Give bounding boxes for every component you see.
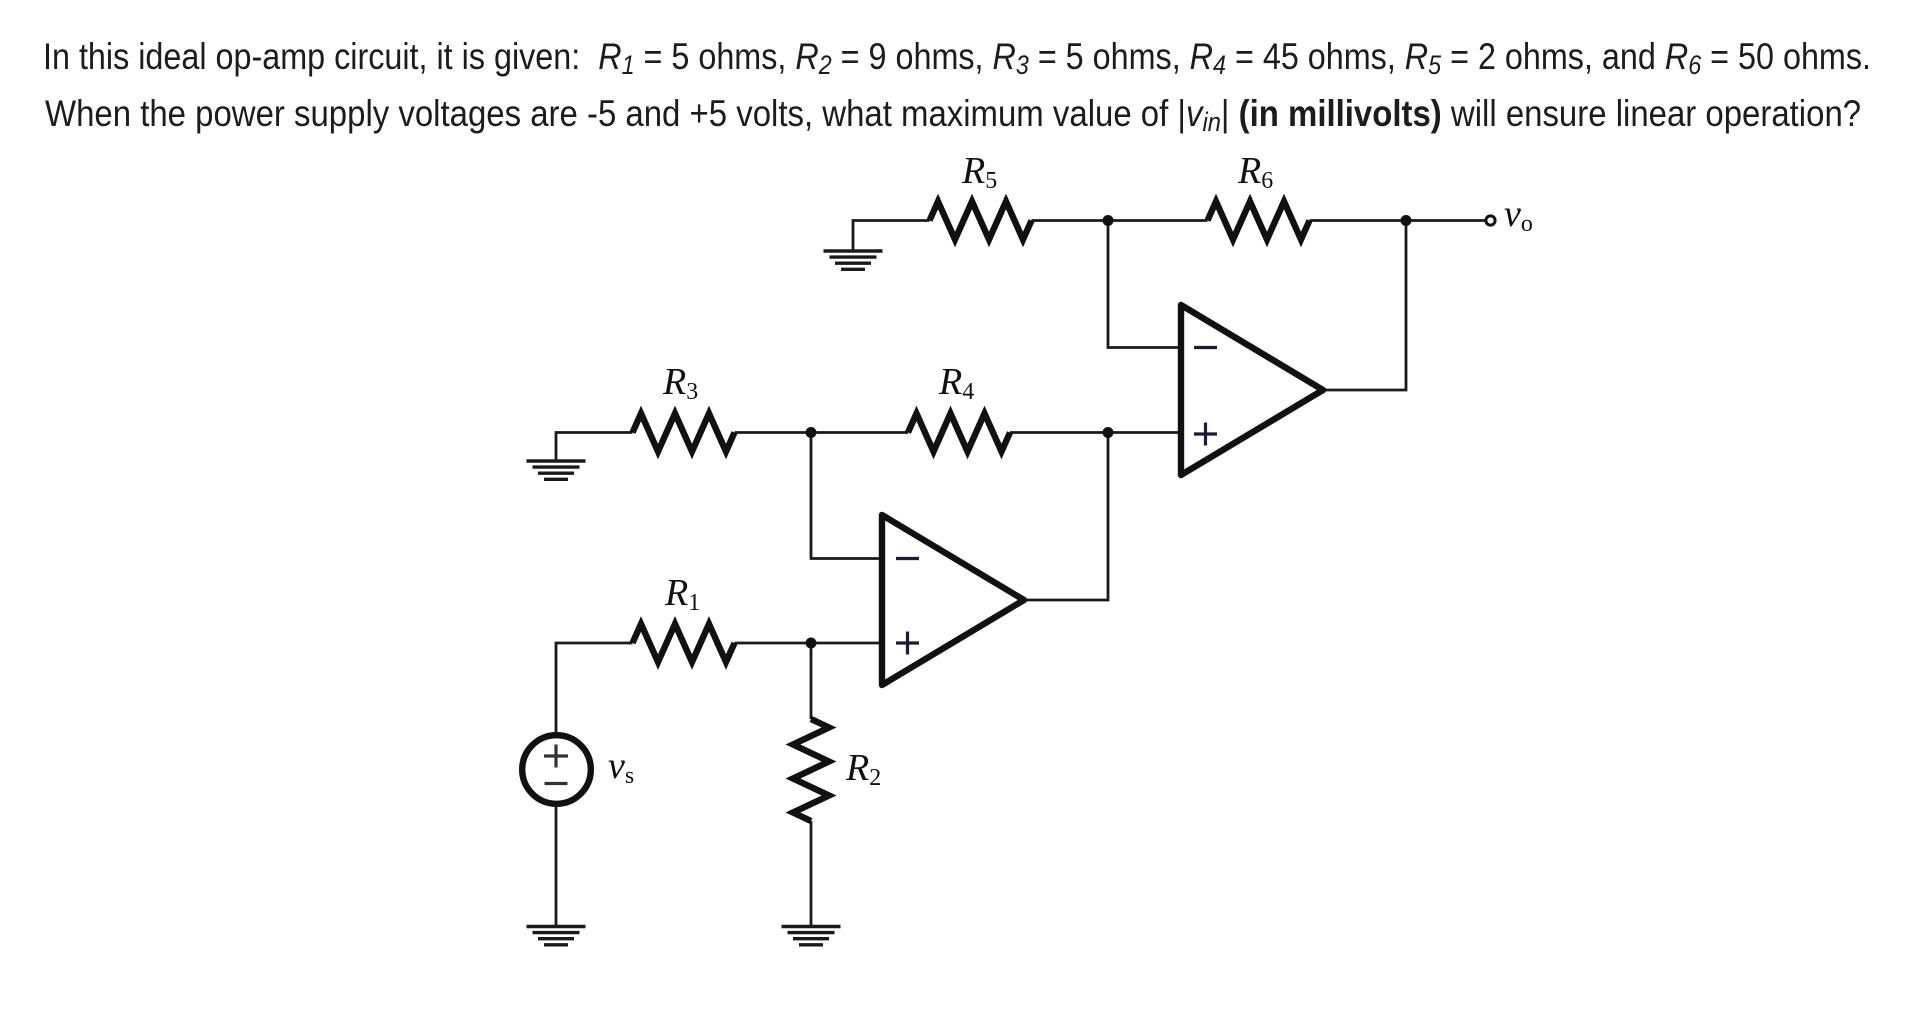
- label vo: [1504, 192, 1533, 236]
- op-amp U1 inverting input marker: [896, 557, 919, 560]
- voltage source minus marker: [545, 782, 568, 785]
- wire node B down to op-amp U1 output: [1024, 433, 1108, 601]
- op-amp U2: [1181, 305, 1323, 475]
- wire R4 right to node B: [1010, 431, 1108, 434]
- node A junction dot: [806, 427, 817, 438]
- wire R5 left stub to ground: [853, 221, 930, 252]
- wire vs bottom to ground: [555, 807, 558, 927]
- question text line 2: [45, 92, 1861, 135]
- resistor R6: [1208, 202, 1310, 240]
- voltage source vs: [522, 735, 591, 804]
- wire R6 right to node E: [1310, 219, 1407, 222]
- op-amp U1 non-inverting input marker: [896, 632, 919, 655]
- op-amp U1: [882, 515, 1024, 685]
- label vs: [608, 744, 634, 788]
- wire node C to R6 left: [1108, 219, 1208, 222]
- label R3: [663, 360, 698, 404]
- node E junction dot: [1401, 215, 1412, 226]
- resistor R5: [930, 202, 1032, 240]
- wire node E to output terminal: [1406, 219, 1485, 222]
- resistor R2: [793, 719, 829, 821]
- wire R3 left stub to ground: [556, 433, 633, 462]
- label R4: [939, 360, 974, 404]
- wire R5 right to node C: [1032, 219, 1109, 222]
- label R5: [962, 149, 997, 193]
- wire node A to R4 left: [811, 431, 908, 434]
- wire R3 right to node A: [735, 431, 812, 434]
- resistor R4: [908, 414, 1010, 452]
- wire R2 bottom to ground: [810, 821, 813, 927]
- op-amp U2 inverting input marker: [1194, 346, 1217, 349]
- wire node C down to op-amp U2 inverting input: [1108, 221, 1181, 348]
- ground below R3 left: [527, 461, 586, 479]
- wire vs top to R1 left: [556, 643, 633, 732]
- node D junction dot: [806, 638, 817, 649]
- label R1: [665, 571, 700, 615]
- wire node D down to R2 top: [810, 643, 813, 719]
- ground below voltage source vs: [527, 927, 586, 945]
- node C junction dot: [1103, 215, 1114, 226]
- op-amp U2 non-inverting input marker: [1194, 423, 1217, 446]
- resistor R1: [633, 624, 735, 662]
- voltage source plus marker: [544, 745, 568, 768]
- ground below R5 left: [824, 251, 883, 269]
- question text line 1: [43, 35, 1871, 78]
- label R6: [1238, 149, 1273, 193]
- label R2: [846, 746, 881, 790]
- wire node B to op-amp U2 non-inverting input: [1108, 431, 1181, 434]
- wire node E down to op-amp U2 output: [1323, 221, 1406, 391]
- ground below R2: [782, 927, 841, 945]
- resistor R3: [633, 414, 735, 452]
- output terminal vo: [1486, 216, 1495, 225]
- node B junction dot: [1103, 427, 1114, 438]
- wire R1 right to node D and op-amp U1 non-inverting input: [735, 642, 883, 645]
- wire node A down to op-amp U1 inverting input: [811, 433, 882, 559]
